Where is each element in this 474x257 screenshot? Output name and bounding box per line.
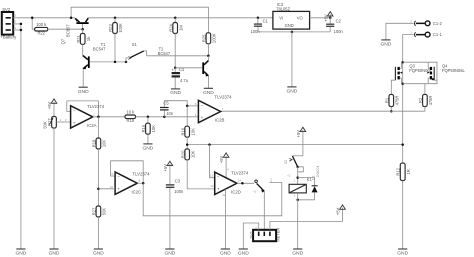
svg-text:R15: R15 bbox=[141, 124, 146, 132]
svg-text:GND: GND bbox=[49, 251, 60, 257]
ground IC3 bbox=[287, 86, 296, 88]
wire R18 to IC2C bbox=[97, 149, 99, 206]
svg-text:50K: 50K bbox=[102, 208, 107, 216]
junction R15 node bbox=[147, 116, 150, 119]
resistor R1 bbox=[389, 94, 394, 106]
resistor R16 bbox=[186, 106, 188, 126]
wire R12 to ground bbox=[402, 181, 404, 249]
wire SV1 left pin to ground bbox=[243, 223, 258, 249]
resistor R19 bbox=[125, 115, 136, 119]
capacitor C4 4.7u bbox=[174, 68, 176, 72]
wire C1-1 to drain bus bbox=[403, 35, 414, 63]
junction relay bottom bbox=[296, 199, 299, 202]
svg-text:78L05Z: 78L05Z bbox=[276, 7, 290, 12]
supply +5V for R17 bbox=[53, 102, 55, 117]
svg-text:R16: R16 bbox=[180, 127, 185, 135]
wire S1 to T2 collector node bbox=[147, 55, 209, 57]
relay K1 bbox=[289, 184, 306, 193]
svg-text:R18: R18 bbox=[92, 139, 97, 147]
wire R19 to filter node bbox=[136, 116, 199, 118]
ground SV1 bbox=[239, 248, 248, 250]
wire IC2C output to meter switch bbox=[143, 183, 282, 216]
wire T2 emitter to ground bbox=[207, 76, 209, 89]
ground T2 bbox=[204, 87, 213, 89]
wire IC2C feedback bbox=[111, 161, 144, 183]
svg-text:FQP50N06L: FQP50N06L bbox=[442, 68, 465, 73]
svg-text:−: − bbox=[117, 175, 120, 180]
svg-text:+: + bbox=[201, 115, 204, 120]
svg-text:10K: 10K bbox=[102, 140, 107, 148]
wire R17 wiper to IC2A bbox=[56, 121, 70, 123]
svg-text:IC2D: IC2D bbox=[231, 189, 241, 194]
svg-text:1R: 1R bbox=[406, 169, 411, 174]
ground battery bbox=[16, 248, 25, 250]
svg-text:−: − bbox=[201, 103, 204, 108]
wire C1 C2 ground link bbox=[258, 31, 330, 33]
svg-text:GND: GND bbox=[15, 251, 26, 257]
svg-text:BC547: BC547 bbox=[93, 46, 106, 51]
svg-text:R22: R22 bbox=[37, 31, 45, 36]
wire T1 base to R23 and S1 bbox=[90, 61, 126, 63]
wire IC3 output bbox=[310, 17, 331, 19]
wire R1 to opamp line bbox=[390, 107, 392, 112]
transistor Q3 FQP50N06L bbox=[394, 67, 396, 80]
wire T1 emitter to ground bbox=[82, 69, 84, 87]
svg-text:GND: GND bbox=[286, 89, 297, 95]
svg-text:11: 11 bbox=[222, 193, 225, 197]
junction sense to IC2D bbox=[208, 143, 211, 146]
wire switch common to meter bbox=[263, 191, 265, 230]
svg-text:GND: GND bbox=[292, 251, 303, 257]
ground C4 bbox=[171, 88, 180, 90]
ground T1 bbox=[79, 86, 88, 88]
svg-text:+: + bbox=[117, 187, 120, 192]
svg-text:S1: S1 bbox=[132, 42, 138, 47]
svg-text:TLV2374: TLV2374 bbox=[132, 172, 150, 177]
wire relay to ground bbox=[297, 193, 299, 249]
svg-text:<1: <1 bbox=[253, 190, 257, 194]
junction top rail tap bbox=[70, 17, 73, 20]
svg-text:13: 13 bbox=[210, 174, 214, 178]
wire R27 to ground bbox=[97, 217, 99, 249]
svg-text:IC2C: IC2C bbox=[132, 189, 142, 194]
junction bus mid bbox=[401, 82, 404, 85]
junction Q7 base node bbox=[81, 28, 84, 31]
svg-text:1M: 1M bbox=[178, 25, 183, 31]
transistor Q4 FQP50N06L bbox=[433, 67, 435, 80]
ground IC2D bbox=[221, 248, 230, 250]
wire Q3 gate lead bbox=[391, 80, 395, 94]
wire IC2C output bbox=[137, 182, 143, 184]
svg-text:GND: GND bbox=[164, 251, 175, 257]
ground R27 bbox=[94, 248, 103, 250]
capacitor C2 100n bbox=[329, 18, 331, 24]
svg-text:+5V: +5V bbox=[219, 155, 224, 163]
svg-text:R24: R24 bbox=[168, 24, 173, 32]
svg-text:10 k: 10 k bbox=[126, 109, 135, 114]
ground relay bbox=[293, 248, 302, 250]
ground charger bbox=[381, 39, 390, 41]
resistor R24 bbox=[174, 17, 177, 20]
wire IC2D minus input bbox=[210, 145, 215, 178]
junction IC2B minus bbox=[186, 105, 189, 108]
wire R2 to opamp line bbox=[424, 107, 426, 112]
svg-text:IC2A: IC2A bbox=[87, 123, 97, 128]
wire IC3 gnd pin bbox=[291, 29, 293, 32]
svg-text:GND: GND bbox=[397, 251, 408, 257]
svg-text:12: 12 bbox=[210, 184, 214, 188]
junction R1 bottom bbox=[390, 110, 393, 113]
svg-text:IC2B: IC2B bbox=[215, 118, 225, 123]
svg-text:100 k: 100 k bbox=[36, 22, 47, 27]
svg-text:10K: 10K bbox=[190, 128, 195, 136]
svg-text:GND: GND bbox=[238, 251, 249, 257]
svg-text:BC807: BC807 bbox=[66, 24, 71, 37]
transistor T1 BC547 bbox=[88, 56, 90, 68]
wire current sense line bbox=[187, 144, 403, 146]
svg-text:C4: C4 bbox=[179, 67, 185, 72]
supply +5V for IC2D bbox=[225, 156, 227, 178]
wire D1 bottom bbox=[298, 192, 315, 199]
wire C1-2 to ground bbox=[386, 23, 414, 39]
svg-text:R19: R19 bbox=[127, 118, 135, 123]
junction IC2C output bbox=[142, 182, 145, 185]
svg-text:R25: R25 bbox=[202, 34, 207, 42]
svg-text:TLV2374: TLV2374 bbox=[231, 171, 249, 176]
svg-text:D1: D1 bbox=[312, 175, 316, 179]
svg-text:R2: R2 bbox=[418, 97, 423, 103]
junction IC2D output bbox=[241, 182, 244, 185]
resistor R23 bbox=[114, 17, 117, 20]
svg-text:C1: C1 bbox=[263, 18, 269, 23]
svg-text:10n: 10n bbox=[166, 111, 174, 116]
svg-text:+5V: +5V bbox=[296, 130, 301, 138]
wire top rail bbox=[71, 7, 208, 33]
diode D1 1N4004 bbox=[298, 178, 315, 186]
svg-text:VO: VO bbox=[297, 15, 303, 20]
svg-text:GND: GND bbox=[142, 146, 153, 152]
connector SV2 battery header bbox=[2, 12, 13, 35]
svg-text:−: − bbox=[73, 108, 76, 113]
svg-text:GND: GND bbox=[170, 90, 181, 96]
switch meter select bbox=[255, 180, 258, 183]
svg-text:TLV2374: TLV2374 bbox=[87, 104, 105, 109]
svg-text:C1-2: C1-2 bbox=[433, 21, 443, 26]
svg-text:R12: R12 bbox=[396, 167, 401, 175]
capacitor C3 100n bbox=[166, 184, 175, 185]
junction T2 base node bbox=[174, 67, 177, 70]
svg-text:+5V: +5V bbox=[47, 101, 52, 109]
wire R22 to Q7 base node bbox=[48, 28, 83, 30]
junction battery pin2 bbox=[20, 23, 23, 26]
svg-text:TLV2374: TLV2374 bbox=[214, 95, 232, 100]
junction IC2A output bbox=[97, 116, 100, 119]
svg-text:METER: METER bbox=[276, 228, 281, 242]
wire battery negative down to ground bbox=[18, 23, 21, 25]
svg-text:C2: C2 bbox=[336, 19, 342, 24]
junction battery pin1 bbox=[20, 29, 23, 32]
svg-text:GND: GND bbox=[380, 42, 391, 48]
svg-text:R20: R20 bbox=[180, 150, 185, 158]
voltage regulator IC3 78L05Z bbox=[273, 11, 310, 29]
svg-text:+: + bbox=[217, 187, 220, 192]
resistor R25 bbox=[206, 33, 211, 44]
ground R17 bbox=[49, 248, 58, 250]
svg-text:R21: R21 bbox=[76, 34, 81, 42]
wire IC2A feedback bbox=[67, 101, 99, 117]
svg-text:-: - bbox=[261, 225, 262, 229]
svg-text:100n: 100n bbox=[334, 29, 344, 34]
svg-text:1N4004: 1N4004 bbox=[316, 166, 320, 178]
wire mosfet loop bbox=[403, 62, 437, 83]
junction T2 collector node bbox=[207, 55, 210, 58]
svg-text:100K: 100K bbox=[212, 33, 217, 43]
wire drain bus bbox=[402, 62, 404, 163]
svg-text:+5V: +5V bbox=[163, 164, 168, 172]
svg-text:C3: C3 bbox=[175, 178, 181, 183]
transistor T2 BC547 bbox=[202, 62, 204, 74]
wire gate drive line from IC2B bbox=[220, 110, 425, 112]
svg-text:+5V: +5V bbox=[323, 14, 328, 22]
resistor R2 bbox=[424, 84, 426, 95]
svg-text:14: 14 bbox=[238, 178, 242, 182]
svg-text:SV1: SV1 bbox=[248, 230, 253, 238]
wire C5 to IC2B minus bbox=[164, 101, 198, 107]
supply +5V at regulator output bbox=[329, 17, 332, 20]
junction relay top bbox=[296, 176, 299, 179]
resistor R27 bbox=[96, 206, 101, 217]
svg-text:GND: GND bbox=[93, 251, 104, 257]
svg-text:GND: GND bbox=[78, 89, 89, 95]
junction IC3 gnd bbox=[291, 31, 294, 34]
svg-text:S2: S2 bbox=[284, 160, 288, 164]
wire IC2D gnd pin bbox=[224, 189, 226, 249]
svg-text:10K: 10K bbox=[190, 150, 195, 158]
wire battery positive rail bbox=[18, 17, 75, 19]
wire IC2C plus input bbox=[98, 188, 115, 190]
svg-text:10: 10 bbox=[110, 185, 114, 189]
wire T2 base bbox=[175, 67, 202, 69]
svg-text:GND: GND bbox=[203, 90, 214, 96]
wire S2 to relay bbox=[297, 167, 299, 184]
op-amp IC2B bbox=[198, 100, 220, 122]
svg-text:50K: 50K bbox=[42, 121, 47, 129]
svg-text:−: − bbox=[217, 175, 220, 180]
ground R15 bbox=[143, 143, 152, 145]
resistor R12 bbox=[400, 163, 405, 181]
svg-text:<1: <1 bbox=[287, 173, 291, 177]
svg-text:100n: 100n bbox=[174, 189, 184, 194]
svg-text:10K: 10K bbox=[151, 125, 156, 133]
supply +5V meter bbox=[342, 208, 344, 222]
svg-text:4.7u: 4.7u bbox=[180, 78, 188, 83]
wire SV1 right pin to +5V bbox=[270, 222, 343, 230]
junction R16 R20 sense bbox=[186, 143, 189, 146]
svg-text:-: - bbox=[267, 225, 268, 229]
svg-text:R23: R23 bbox=[108, 24, 113, 32]
junction sense at bus bbox=[401, 143, 404, 146]
transistor Q7 BC807 bbox=[76, 22, 88, 24]
resistor R21 bbox=[82, 29, 84, 33]
ground C3 bbox=[165, 248, 174, 250]
wire IC2D output bbox=[237, 182, 254, 184]
wire Q4 gate lead bbox=[434, 79, 437, 81]
supply +5V for C3 bbox=[169, 164, 171, 184]
connector SV1 meter bbox=[253, 230, 276, 241]
junction IC2C plus node bbox=[97, 188, 100, 191]
junction R23 bottom bbox=[114, 61, 117, 64]
junction S2 out bbox=[296, 166, 299, 169]
svg-text:475R: 475R bbox=[395, 96, 400, 106]
svg-text:GND: GND bbox=[285, 23, 294, 28]
wire IC2A output bbox=[93, 116, 125, 118]
svg-text:VI: VI bbox=[279, 15, 283, 20]
svg-text:Q7: Q7 bbox=[61, 38, 66, 44]
svg-text:GND: GND bbox=[220, 251, 231, 257]
svg-text:R27: R27 bbox=[92, 207, 97, 215]
trimmer R17 bbox=[52, 116, 57, 128]
wire switch throw2 stub bbox=[270, 181, 272, 182]
capacitor C1 100n bbox=[257, 17, 260, 20]
svg-text:+Battery: +Battery bbox=[0, 35, 17, 40]
resistor R18 bbox=[97, 117, 99, 138]
junction C5 tap bbox=[163, 116, 166, 119]
wire R17 bottom to ground bbox=[53, 128, 55, 249]
wire R20 to IC2D plus bbox=[187, 160, 215, 189]
svg-text:BC547: BC547 bbox=[158, 51, 171, 56]
svg-text:100K: 100K bbox=[118, 23, 123, 33]
svg-text:C1-1: C1-1 bbox=[433, 32, 443, 37]
svg-text:+5V: +5V bbox=[336, 207, 341, 215]
svg-text:SV2: SV2 bbox=[2, 7, 11, 12]
wire R21 to T1 collector bbox=[82, 44, 84, 55]
junction bus top bbox=[401, 61, 404, 64]
resistor R15 bbox=[147, 117, 149, 123]
svg-text:R1: R1 bbox=[384, 97, 389, 103]
wire C3 to ground bbox=[169, 188, 171, 249]
supply +5V for S2 bbox=[302, 130, 304, 156]
ground R12 bbox=[398, 248, 407, 250]
svg-text:+: + bbox=[73, 120, 76, 125]
resistor R20 bbox=[185, 149, 190, 160]
svg-text:475R: 475R bbox=[428, 96, 433, 106]
resistor R22 bbox=[32, 18, 34, 29]
